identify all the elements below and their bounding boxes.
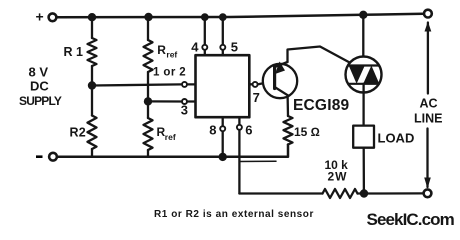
wire R1 column top lead	[91, 17, 93, 38]
node dot rail triac	[359, 11, 367, 19]
resistor 10k 2W	[323, 189, 358, 198]
node dot Rref junction	[144, 97, 152, 105]
wire pin 7 to transistor base	[258, 81, 273, 84]
node dot load bottom	[360, 189, 368, 197]
svg-text:R 1: R 1	[64, 45, 84, 59]
terminal AC bottom	[424, 189, 432, 197]
svg-text:+: +	[36, 9, 44, 25]
op-amp U1 zero-voltage switch IC box	[196, 55, 250, 117]
wire pin6 line to 10k resistor	[239, 192, 322, 194]
wire pin 5 stub	[222, 50, 224, 55]
wire Rref1 top lead	[147, 17, 149, 40]
wire node Rref to pin 3	[148, 100, 181, 102]
AC arrowhead down	[424, 178, 431, 189]
resistor R1	[88, 38, 97, 66]
wire pin 4 stub	[204, 50, 206, 55]
wire R2 bottom lead	[91, 149, 93, 157]
node pin 6 circle	[237, 125, 242, 130]
svg-text:7: 7	[253, 90, 260, 105]
node dot rail pin5	[219, 13, 227, 21]
wire triac anode from top rail	[362, 15, 364, 66]
node dot R1 R2 junction	[88, 81, 96, 89]
AC arrowhead up	[425, 22, 432, 32]
triac TR1 circle	[346, 57, 382, 93]
wire pin 8 to bottom rail	[222, 132, 224, 157]
svg-text:R1 or R2 is an external sensor: R1 or R2 is an external sensor	[154, 209, 314, 220]
node dot rail Rref	[144, 13, 152, 21]
wire 10k to AC bottom terminal	[358, 192, 424, 194]
node pin 8 circle	[220, 126, 225, 131]
wire pin 3 stub to IC	[188, 100, 196, 102]
wire AC line arrow bottom	[426, 129, 428, 188]
svg-text:ref: ref	[165, 132, 176, 142]
triac TR1 right triangle	[363, 66, 379, 84]
label -	[36, 155, 43, 158]
svg-text:R2: R2	[70, 126, 86, 140]
wire top supply rail	[57, 14, 424, 18]
wire pin 1or2 stub to IC	[188, 83, 196, 85]
wire triac to LOAD	[362, 84, 364, 126]
wire pin 6 crossing artifact	[239, 160, 276, 162]
wire pin 4 from rail	[204, 17, 206, 44]
svg-text:1 or 2: 1 or 2	[153, 67, 186, 79]
resistor 15 ohm	[284, 116, 293, 145]
svg-text:3: 3	[181, 103, 188, 118]
transistor Q1 ECG189 circle	[263, 64, 297, 98]
svg-text:2W: 2W	[328, 170, 348, 184]
svg-text:6: 6	[245, 123, 252, 138]
svg-text:R: R	[157, 43, 166, 57]
node pin 1or2 circle	[182, 82, 187, 87]
svg-text:LINE: LINE	[414, 112, 442, 126]
svg-text:15 Ω: 15 Ω	[294, 125, 320, 139]
svg-text:8 V: 8 V	[29, 65, 49, 80]
wire LOAD to bottom line	[363, 148, 365, 194]
wire pin 6 down to 10k line	[238, 130, 240, 193]
resistor Rref2	[144, 118, 153, 150]
svg-text:ECGI89: ECGI89	[293, 97, 350, 114]
transistor Q1 emitter lead (top, arrow to bar)	[275, 62, 288, 67]
svg-text:DC: DC	[30, 79, 49, 94]
resistor R2	[88, 116, 97, 150]
svg-text:ref: ref	[166, 50, 177, 60]
wire pin 6 stub	[238, 117, 240, 124]
node dot rail R1	[88, 13, 96, 21]
node dot pin8 bottom rail	[219, 153, 227, 161]
wire R1 to R2	[91, 66, 93, 116]
wire bottom supply rail	[57, 145, 288, 157]
wire Rref1 to Rref2	[147, 72, 149, 118]
svg-text:4: 4	[191, 40, 199, 55]
wire node R1R2 to pin 1or2	[92, 84, 181, 85]
resistor Rref1	[144, 40, 153, 72]
node pin 4 circle	[202, 45, 207, 50]
wire pin 8 stub	[222, 117, 224, 125]
wire AC line arrow top	[427, 23, 429, 94]
svg-text:AC: AC	[420, 97, 438, 111]
node pin 5 circle	[220, 45, 225, 50]
transistor Q1 emitter arrowhead	[275, 62, 285, 75]
svg-text:8: 8	[209, 123, 216, 138]
svg-text:5: 5	[231, 40, 238, 55]
load box	[353, 126, 374, 148]
node dot rail pin4	[201, 13, 209, 21]
terminal AC top	[424, 10, 432, 18]
wire collector down to 15 ohm	[286, 95, 289, 116]
wire pin 5 from rail	[222, 17, 224, 44]
transistor Q1 collector lead (bottom)	[275, 87, 288, 95]
svg-text:SUPPLY: SUPPLY	[19, 94, 62, 108]
wire pin 7 stub	[249, 83, 252, 85]
triac TR1 top bar	[349, 64, 380, 66]
wire Rref2 bottom lead	[147, 150, 149, 157]
wire emitter up and over to triac gate	[288, 47, 350, 63]
terminal + (plus supply)	[49, 13, 57, 21]
node pin 7 circle	[253, 82, 258, 87]
transistor Q1 base bar	[273, 67, 276, 89]
terminal - (minus supply)	[49, 153, 57, 161]
svg-text:LOAD: LOAD	[378, 131, 415, 146]
svg-text:SeekIC.com: SeekIC.com	[367, 210, 455, 229]
node pin 3 circle	[182, 99, 187, 104]
triac TR1 bottom bar	[349, 83, 379, 85]
triac TR1 left triangle	[349, 66, 365, 84]
